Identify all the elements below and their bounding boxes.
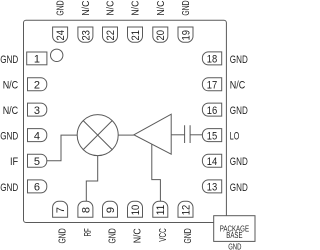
svg-text:4: 4 <box>34 130 40 142</box>
pin 24 pad <box>53 27 68 42</box>
svg-text:GND: GND <box>230 54 248 66</box>
svg-text:14: 14 <box>207 156 218 168</box>
wire IF: pin 5 to mixer <box>47 135 77 161</box>
svg-text:23: 23 <box>80 30 92 41</box>
svg-text:GND: GND <box>57 228 69 243</box>
svg-text:5: 5 <box>34 156 40 168</box>
svg-text:N/C: N/C <box>130 0 142 15</box>
svg-text:2: 2 <box>34 80 40 92</box>
pin 22 pad <box>103 27 118 42</box>
svg-text:6: 6 <box>34 182 40 194</box>
svg-text:GND: GND <box>0 54 18 66</box>
wire LO: capacitor to pin 15 <box>190 134 203 136</box>
pin 12 pad <box>178 201 193 217</box>
svg-text:19: 19 <box>180 30 192 41</box>
svg-text:8: 8 <box>80 207 92 213</box>
svg-text:LO: LO <box>230 131 240 143</box>
svg-text:VCC: VCC <box>157 228 169 242</box>
package base box <box>214 216 255 242</box>
wire mixer to amplifier <box>118 134 134 136</box>
wire RF: mixer to pin 8 <box>86 156 97 202</box>
mixer X <box>83 121 112 150</box>
svg-text:17: 17 <box>207 80 218 92</box>
svg-text:22: 22 <box>105 30 117 41</box>
pin 16 pad <box>202 103 221 116</box>
pin 19 pad <box>178 27 193 42</box>
svg-text:16: 16 <box>207 105 218 117</box>
svg-text:GND: GND <box>180 0 192 15</box>
package outline <box>24 20 227 222</box>
pin 14 pad <box>202 154 221 167</box>
pin 6 pad <box>28 180 47 193</box>
svg-text:N/C: N/C <box>230 80 246 92</box>
pin 7 pad <box>53 201 68 217</box>
svg-text:9: 9 <box>105 207 117 213</box>
amplifier triangle <box>134 114 171 154</box>
pin 17 pad <box>202 78 221 91</box>
svg-text:GND: GND <box>107 228 119 243</box>
svg-text:3: 3 <box>34 105 40 117</box>
svg-text:18: 18 <box>207 54 218 66</box>
svg-text:11: 11 <box>155 205 167 216</box>
svg-text:BASE: BASE <box>226 231 242 240</box>
wire VCC: amplifier to pin 11 <box>152 144 161 201</box>
pin 2 pad <box>28 78 47 91</box>
pin 21 pad <box>128 27 143 42</box>
pin 10 pad <box>128 201 143 217</box>
pin 23 pad <box>78 27 93 42</box>
svg-text:GND: GND <box>230 105 248 117</box>
capacitor plates <box>185 125 191 143</box>
svg-text:N/C: N/C <box>3 105 19 117</box>
svg-text:24: 24 <box>55 30 67 41</box>
pin 18 pad <box>202 52 221 65</box>
svg-text:GND: GND <box>0 182 18 194</box>
pin 5 pad <box>28 154 47 167</box>
svg-text:15: 15 <box>207 130 218 142</box>
svg-text:20: 20 <box>155 30 167 41</box>
pin 1 indicator dot <box>51 49 63 61</box>
svg-text:IF: IF <box>10 156 18 168</box>
pin 1 pad <box>27 52 47 65</box>
svg-text:GND: GND <box>230 182 248 194</box>
svg-text:1: 1 <box>34 54 40 66</box>
svg-text:21: 21 <box>130 30 142 41</box>
svg-text:13: 13 <box>207 182 218 194</box>
svg-text:GND: GND <box>55 0 67 15</box>
wire amplifier to capacitor <box>171 134 184 136</box>
svg-text:12: 12 <box>180 205 192 216</box>
pin 8 pad <box>78 201 93 217</box>
svg-text:N/C: N/C <box>155 0 167 15</box>
pin 4 pad <box>28 129 47 142</box>
svg-text:10: 10 <box>130 205 142 216</box>
pin 13 pad <box>202 180 221 193</box>
svg-text:7: 7 <box>55 207 67 213</box>
mixer circle <box>77 115 118 156</box>
svg-text:N/C: N/C <box>132 228 144 243</box>
svg-text:N/C: N/C <box>3 80 19 92</box>
svg-text:N/C: N/C <box>105 0 117 15</box>
svg-text:N/C: N/C <box>80 0 92 15</box>
pin 11 pad <box>153 201 168 217</box>
svg-text:RF: RF <box>82 228 94 236</box>
pin 20 pad <box>153 27 168 42</box>
pin 15 pad <box>202 129 221 142</box>
svg-text:GND: GND <box>182 228 194 243</box>
svg-text:GND: GND <box>228 242 241 250</box>
pin 3 pad <box>28 103 47 116</box>
svg-text:GND: GND <box>0 131 18 143</box>
svg-text:GND: GND <box>230 156 248 168</box>
pin 9 pad <box>103 201 118 217</box>
